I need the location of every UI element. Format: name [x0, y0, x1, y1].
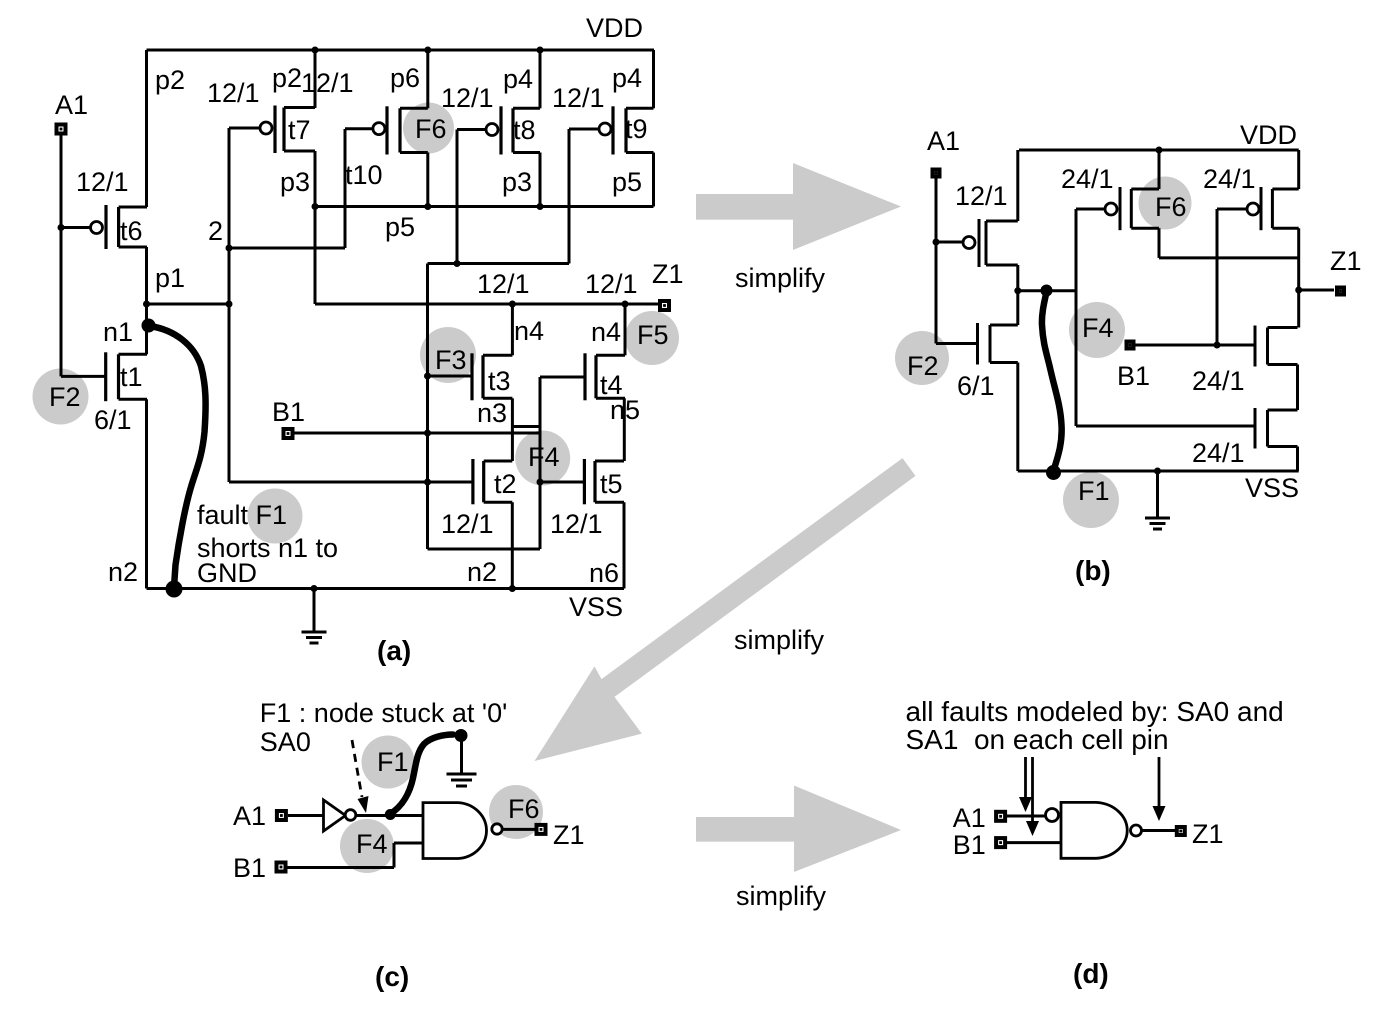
svg-text:F6: F6	[415, 114, 447, 144]
pmos 24/1 right (b)	[1247, 187, 1299, 230]
svg-text:t3: t3	[488, 366, 511, 396]
svg-text:2: 2	[208, 216, 223, 246]
wire output (b)	[1018, 289, 1076, 292]
svg-text:(d): (d)	[1073, 958, 1109, 989]
svg-text:A1: A1	[233, 801, 266, 831]
pmos F6 24/1 (b)	[1105, 187, 1159, 230]
wire gate bus horizontal y263	[428, 262, 570, 265]
wire pmos3 gate (b)	[1217, 208, 1246, 211]
wire pmos3 gate vertical (b)	[1216, 209, 1219, 345]
terminal B1 (d)	[994, 836, 1007, 849]
svg-text:p5: p5	[612, 167, 642, 197]
svg-text:12/1: 12/1	[441, 509, 494, 539]
NAND gate (c)	[423, 803, 486, 859]
svg-text:p2: p2	[272, 63, 302, 93]
transistor t6	[91, 205, 148, 249]
svg-text:12/1: 12/1	[76, 167, 129, 197]
svg-text:t10: t10	[345, 160, 383, 190]
fault circle F1 (c)	[362, 736, 415, 789]
wire t4 gate vertical	[539, 377, 542, 549]
svg-text:GND: GND	[197, 558, 257, 588]
transistor t9	[599, 106, 654, 154]
wire nmos1 source to VSS (b)	[1016, 363, 1019, 472]
wire n3 vertical	[511, 398, 514, 461]
transistor t10	[373, 106, 428, 154]
wire VDD to t8 drain	[539, 50, 542, 108]
wire VDD to t9 drain	[652, 50, 655, 108]
svg-text:p2: p2	[155, 65, 185, 95]
wire VDD to t6 drain	[145, 50, 148, 207]
svg-text:F4: F4	[528, 442, 560, 472]
svg-text:24/1: 24/1	[1192, 366, 1245, 396]
terminal B1 (a)	[282, 427, 295, 440]
fault circle F4 (a)	[515, 431, 570, 486]
svg-text:n6: n6	[589, 558, 619, 588]
wire NAND out to Z1 (d)	[1142, 829, 1176, 832]
wire t5 gate loop	[428, 548, 541, 551]
svg-text:F3: F3	[435, 345, 467, 375]
svg-text:VDD: VDD	[1240, 120, 1297, 150]
transistor t5	[584, 459, 624, 504]
terminal A1 (d)	[994, 810, 1007, 823]
wire pmos1 source down	[1016, 265, 1019, 325]
wire VDD to t7 drain	[314, 50, 317, 108]
svg-text:F1 : node stuck at '0': F1 : node stuck at '0'	[260, 698, 507, 728]
wire Z1 (a)	[315, 303, 658, 306]
ground (c)	[447, 736, 477, 787]
svg-text:A1: A1	[55, 90, 88, 120]
svg-text:simplify: simplify	[734, 625, 825, 655]
svg-text:n4: n4	[514, 316, 544, 346]
wire t8 gate	[457, 128, 487, 131]
nmos 24/1 mid (b)	[1255, 326, 1298, 367]
ground (b)	[1145, 471, 1170, 529]
wire t3 drain up to Z1	[511, 304, 514, 355]
svg-text:t5: t5	[600, 469, 623, 499]
svg-text:n4: n4	[591, 317, 621, 347]
svg-text:t1: t1	[120, 362, 143, 392]
fault circle F3 (a)	[420, 327, 476, 383]
wire pmos1 gate (b)	[936, 241, 962, 244]
wire node2 vertical	[228, 128, 231, 482]
node p1 junction	[143, 301, 150, 308]
svg-text:p4: p4	[503, 64, 533, 94]
svg-text:p5: p5	[385, 212, 415, 242]
svg-text:F2: F2	[907, 351, 939, 381]
wire F6 pmos gate (b)	[1076, 208, 1104, 211]
svg-text:6/1: 6/1	[957, 371, 995, 401]
wire nmos bottom gate (b)	[1076, 425, 1255, 428]
svg-text:t8: t8	[513, 115, 536, 145]
svg-text:F4: F4	[1082, 313, 1114, 343]
terminal B1 (c)	[275, 861, 288, 874]
svg-text:B1: B1	[233, 853, 266, 883]
svg-text:B1: B1	[272, 397, 305, 427]
svg-text:12/1: 12/1	[207, 78, 260, 108]
svg-text:n1: n1	[103, 317, 133, 347]
transistor t3	[472, 353, 512, 400]
wire t9 gate	[569, 128, 600, 131]
svg-text:SA1 on each cell pin: SA1 on each cell pin	[906, 724, 1169, 755]
transistor t4	[585, 353, 625, 400]
node fault end dot (a)	[166, 581, 183, 598]
NAND gate (d)	[1061, 802, 1127, 858]
pointer arrow to node (c)	[352, 740, 362, 797]
fault circle F6 (a)	[403, 103, 454, 154]
wire t6 source to t1 drain	[145, 247, 148, 354]
wire t9 gate vertical	[568, 129, 571, 264]
VDD rail (a)	[147, 49, 655, 52]
svg-text:p4: p4	[612, 63, 642, 93]
svg-text:6/1: 6/1	[94, 405, 132, 435]
svg-text:12/1: 12/1	[441, 83, 494, 113]
terminal Z1 (c)	[535, 823, 548, 836]
node squiggle bottom dot (b)	[1046, 465, 1061, 480]
wire n bottom source to VSS (b)	[1296, 447, 1299, 472]
fault circle F2 (b)	[895, 331, 949, 385]
svg-text:F2: F2	[49, 382, 81, 412]
wire B1 to NAND (d)	[1007, 841, 1061, 844]
wire t10 gate vertical	[344, 129, 347, 248]
transistor t2	[473, 459, 512, 504]
fault F1 short squiggle (a)	[150, 326, 206, 587]
terminal Z1 (a)	[658, 299, 671, 312]
wire A1 vertical	[60, 135, 63, 376]
svg-text:fault F1: fault F1	[197, 500, 287, 530]
wire F6 pmos gate vertical (b)	[1075, 209, 1078, 426]
node output junction (b)	[1014, 287, 1021, 294]
wire B1 (b)	[1136, 344, 1256, 347]
pin arrow A1 (d)	[1024, 757, 1027, 799]
fault circle F4 (b)	[1069, 302, 1125, 358]
svg-text:12/1: 12/1	[550, 509, 603, 539]
wire t6 gate	[61, 226, 91, 229]
wire t7 gate	[229, 127, 260, 130]
fault F1 squiggle (c)	[390, 735, 453, 815]
wire F6 source across	[1159, 256, 1299, 259]
wire pmos3 source to Z1 node	[1297, 228, 1300, 327]
svg-text:12/1: 12/1	[955, 181, 1008, 211]
wire Z1 (b)	[1299, 289, 1334, 292]
svg-text:12/1: 12/1	[477, 269, 530, 299]
svg-text:n2: n2	[108, 557, 138, 587]
wire inverter out to NAND (c)	[356, 814, 423, 817]
svg-text:24/1: 24/1	[1203, 164, 1256, 194]
svg-text:p3: p3	[502, 167, 532, 197]
node Z1 junction (b)	[1295, 287, 1302, 294]
svg-text:F1: F1	[1078, 476, 1110, 506]
wire t8 gate vertical	[456, 130, 459, 264]
wire pmos1 drain to VDD	[1016, 150, 1019, 221]
VSS rail (a)	[147, 587, 625, 590]
wire VDD to t10 drain	[426, 50, 429, 108]
wire B1 to NAND (c)	[394, 842, 423, 845]
svg-text:Z1: Z1	[652, 259, 684, 289]
terminal A1 (c)	[275, 809, 288, 822]
wire t2 gate	[229, 481, 473, 484]
wire A1 vertical (b)	[935, 178, 938, 344]
wire B1 up (c)	[393, 843, 396, 868]
svg-text:A1: A1	[927, 126, 960, 156]
svg-text:(b): (b)	[1075, 555, 1111, 586]
wire t2 source to VSS	[511, 502, 514, 588]
wire t8 source down	[539, 153, 542, 207]
wire n3 jog	[512, 425, 540, 428]
wire NAND out to Z1 (c)	[502, 828, 535, 831]
wire t5 gate vertical	[539, 433, 542, 549]
nmos 6/1 (b)	[978, 323, 1018, 365]
svg-text:simplify: simplify	[736, 881, 827, 911]
wire pmos3 drain to VDD	[1297, 150, 1300, 189]
fault circle F2 (a)	[33, 369, 89, 425]
svg-text:Z1: Z1	[553, 820, 585, 850]
wire F6 drain to VDD	[1158, 150, 1161, 189]
svg-text:p6: p6	[390, 63, 420, 93]
fault circle F1 (b)	[1063, 472, 1119, 528]
svg-text:F4: F4	[356, 829, 388, 859]
wire n5 vertical	[623, 398, 626, 461]
svg-text:t7: t7	[288, 115, 311, 145]
wire nmos 6/1 gate (b)	[936, 342, 978, 345]
pmos 12/1 (b)	[963, 219, 1018, 267]
svg-text:F6: F6	[508, 794, 540, 824]
svg-text:t6: t6	[120, 216, 143, 246]
wire p1	[147, 303, 230, 306]
svg-text:F1: F1	[377, 747, 409, 777]
fault circle F5 (a)	[625, 311, 679, 365]
arrow simplify b-to-c (diagonal)	[535, 458, 916, 761]
svg-text:all faults modeled by: SA0 and: all faults modeled by: SA0 and	[906, 696, 1284, 727]
wire t4 drain up to Z1	[624, 304, 627, 355]
wire A1 to inverter (c)	[288, 814, 324, 817]
inverter (c)	[324, 800, 346, 831]
svg-text:Z1: Z1	[1330, 246, 1362, 276]
transistor t8	[486, 106, 540, 154]
svg-text:F5: F5	[637, 320, 669, 350]
wire t9 source down	[652, 153, 655, 207]
fault circle F4 (c)	[340, 819, 394, 873]
svg-text:12/1: 12/1	[585, 269, 638, 299]
fault circle F6 (c)	[489, 785, 543, 839]
wire t5 source to VSS	[623, 502, 626, 588]
wire t10 source down	[426, 153, 429, 207]
svg-text:12/1: 12/1	[552, 83, 605, 113]
transistor t7	[260, 106, 315, 154]
node squiggle end dot (c)	[455, 729, 468, 742]
svg-text:(a): (a)	[377, 635, 411, 666]
svg-text:B1: B1	[1117, 361, 1150, 391]
node squiggle top dot (b)	[1041, 285, 1053, 297]
pin arrow B1 (d)	[1031, 757, 1034, 823]
node stuck dot (c)	[385, 809, 396, 820]
svg-text:n3: n3	[477, 398, 507, 428]
fault circle F1 (a)	[248, 489, 303, 544]
NAND input bubble (d)	[1046, 809, 1059, 822]
node n1 dot	[142, 319, 156, 333]
svg-text:p1: p1	[155, 263, 185, 293]
terminal Z1 (b)	[1335, 286, 1346, 297]
svg-text:simplify: simplify	[735, 263, 826, 293]
svg-text:t9: t9	[625, 114, 648, 144]
svg-text:24/1: 24/1	[1192, 438, 1245, 468]
terminal A1 (a)	[55, 123, 68, 136]
transistor t1	[106, 352, 147, 401]
wire t10 gate	[345, 127, 373, 130]
wire F6 source down	[1158, 228, 1161, 258]
wire t3 gate	[428, 375, 473, 378]
svg-text:A1: A1	[953, 803, 986, 833]
svg-text:t2: t2	[494, 469, 517, 499]
wire t1 gate	[61, 375, 106, 378]
svg-text:F6: F6	[1155, 192, 1187, 222]
svg-text:12/1: 12/1	[301, 68, 354, 98]
VSS rail (b)	[1018, 470, 1299, 473]
fault F1 squiggle (b)	[1042, 292, 1062, 469]
wire t1 source to VSS	[145, 399, 148, 588]
svg-text:24/1: 24/1	[1061, 164, 1114, 194]
svg-text:VSS: VSS	[1245, 473, 1299, 503]
wire left gate bus vertical	[426, 264, 429, 550]
wire t5 gate	[540, 481, 584, 484]
wire B1 (c)	[288, 866, 395, 869]
wire t7 source down to Z1 wire	[314, 151, 317, 304]
terminal B1 (b)	[1125, 340, 1136, 351]
VDD rail (b)	[1019, 149, 1299, 152]
svg-text:(c): (c)	[375, 961, 409, 992]
wire t4 gate	[540, 376, 585, 379]
arrow simplify a-to-b	[696, 163, 901, 250]
terminal A1 (b)	[931, 168, 942, 179]
wire B1	[294, 432, 540, 435]
terminal Z1 (d)	[1175, 825, 1187, 837]
arrow simplify c-to-d	[696, 786, 901, 873]
pin arrow Z1 (d)	[1158, 757, 1161, 808]
fault circle F6 (b)	[1139, 177, 1192, 230]
nmos 24/1 bottom (b)	[1255, 408, 1298, 449]
svg-text:SA0: SA0	[260, 727, 311, 757]
svg-text:VDD: VDD	[586, 13, 643, 43]
rail p3/p5 (a)	[315, 205, 654, 208]
svg-text:VSS: VSS	[569, 592, 623, 622]
svg-text:B1: B1	[953, 830, 986, 860]
ground (a)	[302, 589, 327, 644]
svg-text:n2: n2	[467, 557, 497, 587]
wire node2 horizontal	[229, 247, 345, 250]
svg-text:p3: p3	[280, 167, 310, 197]
svg-text:Z1: Z1	[1192, 819, 1224, 849]
wire n mid source down (b)	[1296, 365, 1299, 411]
wire A1 to NAND (d)	[1007, 815, 1045, 818]
